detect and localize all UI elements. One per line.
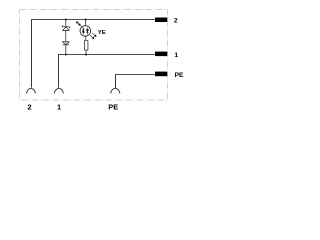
terminal pad 1	[155, 52, 167, 57]
suppressor Z-diode V1	[62, 20, 69, 42]
resistor R1	[84, 40, 88, 50]
contact PE socket arc	[111, 89, 120, 94]
svg-text:2: 2	[174, 18, 178, 25]
svg-text:PE: PE	[175, 72, 184, 79]
enclosure dash-dot border	[19, 10, 167, 100]
node junction top of diode branch	[65, 19, 67, 21]
terminal pad PE	[155, 72, 167, 77]
wire net 2 (terminal 2 to contact 2)	[32, 20, 156, 88]
svg-text:YE: YE	[98, 30, 106, 36]
node junction top of LED branch	[85, 19, 87, 21]
node junction bottom of resistor branch	[85, 54, 87, 56]
diode V2	[63, 42, 70, 55]
wire resistor to net 1	[85, 50, 87, 54]
LED light emission arrows lower-right	[90, 33, 96, 39]
wire net PE (terminal PE to contact PE)	[116, 75, 156, 89]
wire net 1 (terminal 1 to contact 1)	[59, 55, 156, 88]
LED indicator (bipolar, yellow)	[80, 20, 91, 41]
svg-text:1: 1	[57, 103, 61, 112]
terminal pad 2	[155, 18, 167, 23]
svg-text:1: 1	[174, 52, 178, 59]
contact 1 socket arc	[54, 89, 63, 94]
contact 2 socket arc	[27, 89, 36, 94]
node junction bottom of diode branch	[65, 54, 67, 56]
svg-text:PE: PE	[108, 103, 118, 112]
LED light emission arrows upper-left	[76, 22, 82, 28]
svg-text:2: 2	[28, 103, 32, 112]
